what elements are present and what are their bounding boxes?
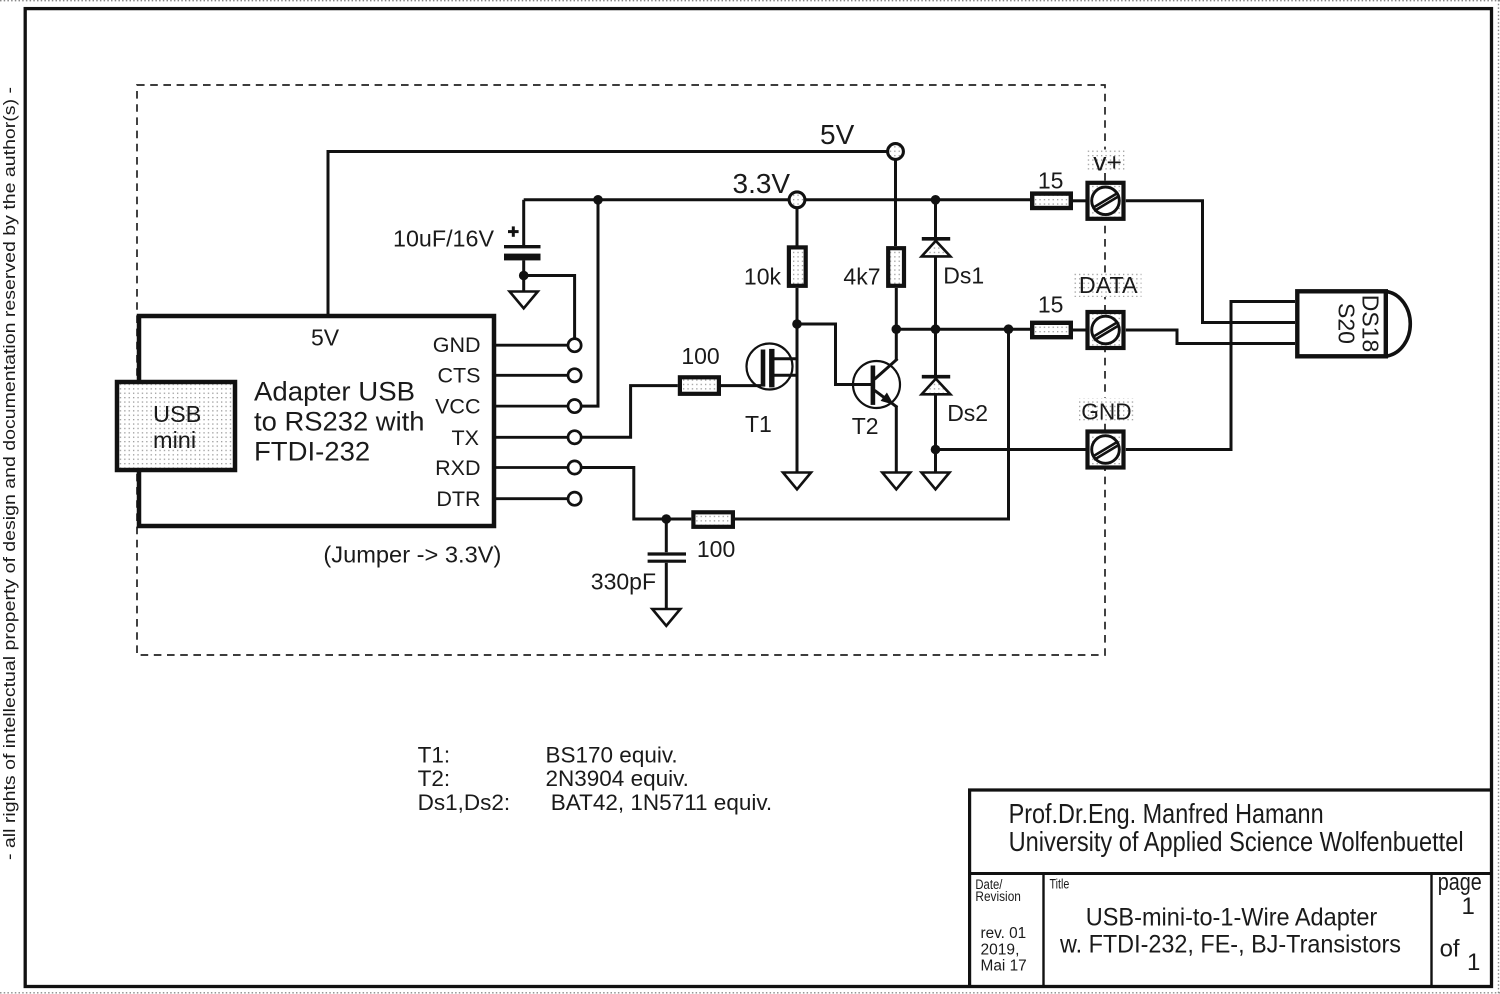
sensor U2 DS18S20 (TO-92) (1297, 291, 1410, 356)
wire R1 top lead from 3.3V node (796, 208, 799, 246)
wire 3.3V rail (524, 198, 1030, 201)
junction node diode column on GND net (931, 445, 941, 455)
svg-text:of: of (1440, 936, 1460, 963)
capacitor C1 10uF/16V (polarized) (393, 225, 541, 260)
wire capacitor C1 top lead (522, 200, 525, 245)
svg-text:mini: mini (153, 427, 196, 453)
resistor R6 15 (data) (1032, 292, 1071, 338)
adapter module box U1 (139, 316, 494, 526)
svg-text:T2:: T2: (418, 766, 451, 791)
svg-text:RXD: RXD (435, 456, 480, 480)
diode Ds2 (schottky) (922, 377, 989, 426)
value table T1/T2/Ds notes (418, 742, 773, 815)
wire terminal DATA to DS18S20 bottom pin (1126, 330, 1295, 344)
wire RXD pin to R4 line (581, 468, 691, 520)
wire R5 to terminal v+ (1072, 199, 1086, 202)
svg-text:1: 1 (1467, 949, 1480, 976)
svg-text:T1: T1 (745, 411, 772, 437)
svg-text:USB-mini-to-1-Wire Adapter: USB-mini-to-1-Wire Adapter (1086, 904, 1378, 932)
svg-text:GND: GND (433, 333, 481, 357)
svg-text:GND: GND (1081, 399, 1131, 425)
wire R2 bottom to T2 collector node (895, 288, 898, 360)
svg-text:BAT42, 1N5711 equiv.: BAT42, 1N5711 equiv. (551, 790, 772, 815)
junction node T1 gate / T2 base branch (792, 319, 802, 329)
resistor R4 100 (rxd) (693, 512, 735, 562)
wire C2 330pF top lead (665, 519, 668, 552)
junction node C1 ground branch (519, 271, 529, 281)
svg-text:2N3904 equiv.: 2N3904 equiv. (546, 766, 689, 791)
svg-text:4k7: 4k7 (843, 264, 880, 290)
wire terminal v+ to DS18S20 middle pin (1126, 201, 1295, 323)
junction node C2 on RXD line (662, 514, 672, 524)
svg-text:CTS: CTS (438, 364, 481, 388)
resistor R1 10k (744, 247, 806, 289)
svg-text:w. FTDI-232, FE-, BJ-Transisto: w. FTDI-232, FE-, BJ-Transistors (1059, 931, 1401, 959)
svg-text:DS18S20: DS18S20 (1334, 295, 1384, 353)
pin GND of U1 (433, 333, 581, 357)
svg-text:5V: 5V (820, 119, 855, 150)
svg-text:TX: TX (452, 426, 479, 450)
USB mini connector J1 (117, 382, 235, 470)
svg-text:DATA: DATA (1079, 272, 1138, 298)
junction node diode column on DATA net (931, 324, 941, 334)
wire T1 drain-source column to ground (796, 288, 799, 473)
svg-text:- all rights of intellectual p: - all rights of intellectual property of… (1, 87, 19, 860)
ground symbol (C2) (652, 609, 680, 626)
svg-text:VCC: VCC (435, 395, 480, 419)
pin TX of U1 (452, 426, 582, 450)
wire R4 to DATA net riser (735, 329, 1009, 519)
pin VCC of U1 (435, 395, 581, 419)
ground symbol (T2 emitter) (882, 473, 910, 490)
wire GND net horizontal to terminal (936, 448, 1086, 451)
svg-text:page: page (1438, 869, 1482, 896)
svg-text:to RS232 with: to RS232 with (254, 406, 425, 436)
resistor R3 100 (gate) (680, 343, 720, 394)
capacitor C2 330pF (591, 554, 686, 594)
dashed module boundary (137, 85, 1105, 655)
svg-text:2019,: 2019, (981, 941, 1020, 958)
svg-text:15: 15 (1038, 292, 1064, 318)
svg-text:Title: Title (1050, 877, 1070, 892)
svg-text:3.3V: 3.3V (733, 168, 791, 199)
svg-text:10uF/16V: 10uF/16V (393, 225, 495, 251)
svg-text:Revision: Revision (975, 889, 1021, 904)
svg-text:Prof.Dr.Eng. Manfred Hamann: Prof.Dr.Eng. Manfred Hamann (1009, 798, 1324, 829)
svg-text:5V: 5V (311, 325, 340, 351)
resistor R2 4k7 (843, 248, 904, 290)
pin RXD of U1 (435, 456, 581, 480)
junction node on 3.3V rail at VCC branch (593, 195, 603, 205)
svg-text:(Jumper -> 3.3V): (Jumper -> 3.3V) (323, 542, 501, 568)
junction node T2 collector on DATA net (892, 324, 902, 334)
svg-text:rev. 01: rev. 01 (981, 925, 1027, 942)
svg-text:BS170 equiv.: BS170 equiv. (546, 742, 678, 767)
transistor T1 (n-MOSFET BS170) (745, 344, 797, 437)
wire C2 bottom lead to ground (665, 563, 668, 609)
pin CTS of U1 (438, 364, 582, 388)
wire TX pin to R3 (581, 386, 678, 438)
svg-text:v+: v+ (1093, 149, 1122, 177)
svg-text:University of Applied Science: University of Applied Science Wolfenbuet… (1009, 826, 1464, 857)
terminal DATA (screw) (1072, 272, 1142, 348)
wire T2 emitter to ground (895, 406, 898, 473)
ground symbol (C1) (510, 292, 538, 309)
wire T1 gate node to T2 base (797, 324, 871, 385)
node 5V (open terminal circle) (820, 119, 903, 159)
wire DATA net horizontal (896, 328, 1030, 331)
wire diode column Ds1/Ds2 (934, 200, 937, 473)
wire R3 to T1 gate (721, 384, 761, 387)
svg-text:DTR: DTR (436, 487, 480, 511)
wire C1 ground net to GND pin (524, 276, 575, 339)
wire terminal GND to DS18S20 top pin (1126, 302, 1295, 450)
terminal v+ (screw) (1087, 149, 1126, 219)
svg-text:T2: T2 (852, 413, 879, 439)
svg-text:100: 100 (697, 536, 735, 562)
diode Ds1 (schottky) (922, 239, 985, 288)
svg-text:FTDI-232: FTDI-232 (254, 436, 370, 466)
wire C1 bottom lead to ground (522, 260, 525, 291)
junction node DATA riser (1004, 324, 1014, 334)
svg-text:15: 15 (1038, 168, 1064, 194)
pin DTR of U1 (436, 487, 581, 511)
node 3.3V (open terminal circle) (733, 168, 805, 208)
svg-text:100: 100 (681, 343, 719, 369)
svg-text:Ds1: Ds1 (943, 262, 984, 288)
svg-text:Ds1,Ds2:: Ds1,Ds2: (418, 790, 511, 815)
svg-text:1: 1 (1462, 893, 1475, 920)
svg-text:Mai 17: Mai 17 (981, 958, 1027, 975)
svg-text:Ds2: Ds2 (947, 400, 988, 426)
wire VCC pin to 3.3V rail (581, 200, 598, 406)
wire R6 to terminal DATA (1072, 329, 1086, 332)
svg-text:Adapter USB: Adapter USB (254, 376, 415, 406)
wire 5V node down to R2 top (crosses 3.3V rail) (894, 159, 897, 246)
svg-text:10k: 10k (744, 264, 782, 290)
terminal GND (screw) (1079, 398, 1135, 468)
junction node on 3.3V rail at diode column (931, 195, 941, 205)
svg-text:USB: USB (153, 401, 201, 427)
ground symbol (T1 source) (783, 473, 811, 490)
ground symbol (Ds2 / GND net) (922, 473, 950, 490)
resistor R5 15 (v+) (1032, 168, 1071, 208)
wire 5V from adapter box top to 5V node (328, 152, 888, 317)
svg-text:330pF: 330pF (591, 568, 656, 594)
svg-text:T1:: T1: (418, 742, 451, 767)
transistor T2 (NPN 2N3904) (852, 359, 900, 439)
